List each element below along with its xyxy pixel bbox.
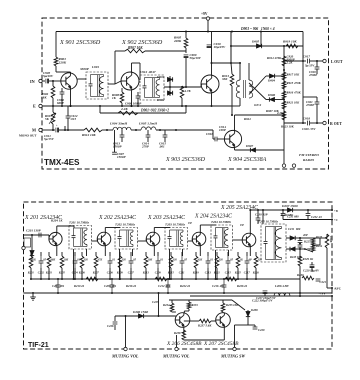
svg-text:C227 100µF/3V: C227 100µF/3V [256, 296, 277, 300]
wire [311, 262, 313, 265]
resistor R901 [54, 57, 58, 66]
wire T201 out [92, 240, 98, 242]
terminal FM stereo b [292, 164, 295, 167]
wire [260, 32, 262, 47]
wire R215 top [170, 252, 172, 256]
wire [303, 60, 306, 62]
svg-text:R917 10K: R917 10K [287, 73, 301, 77]
svg-text:+9V: +9V [201, 12, 208, 16]
wire R213 top [145, 252, 147, 256]
wire X204 emitter [199, 246, 201, 256]
wire [286, 237, 290, 239]
resistor R201 [29, 256, 33, 268]
wire T902 out to diodes/X903 [164, 86, 201, 88]
svg-text:X 204 2SA234C: X 204 2SA234C [194, 213, 232, 220]
resistor R215 [169, 256, 173, 268]
capacitor C222 [263, 290, 268, 292]
svg-text:R209: R209 [117, 272, 124, 275]
wire [316, 110, 318, 123]
wire [299, 238, 301, 241]
wire C202 bottom [40, 268, 42, 279]
wire [257, 220, 259, 224]
resistor R221 [215, 256, 219, 268]
wire to X201 base [48, 235, 50, 239]
wire from ground bus [158, 293, 160, 316]
wire [299, 266, 301, 296]
resistor R207 [94, 256, 98, 268]
svg-text:10K: 10K [64, 259, 69, 262]
svg-text:5µ/10V: 5µ/10V [43, 74, 54, 78]
wire [57, 225, 74, 227]
wire transformer return [73, 249, 75, 279]
wire [100, 112, 186, 114]
capacitor C230 [256, 217, 261, 219]
wire to FM stereo terminal [235, 149, 285, 151]
capacitor C201 [38, 233, 40, 238]
wire [132, 62, 141, 64]
wire R209 bottom [119, 268, 121, 279]
capacitor C220 [310, 264, 315, 266]
capacitor C919 [315, 66, 320, 68]
wire [154, 227, 170, 229]
resistor R216 [155, 277, 167, 281]
svg-text:X 901 2SC536D: X 901 2SC536D [59, 39, 101, 46]
wire [316, 61, 318, 67]
svg-text:R233: R233 [192, 303, 199, 307]
wire [232, 300, 245, 310]
wire [275, 99, 284, 101]
terminal MUTING SW [233, 347, 236, 350]
wire X904 emitter [234, 148, 236, 151]
capacitor C219 [298, 244, 303, 246]
svg-text:C213: C213 [205, 272, 212, 275]
wire X901 collector to T901 [77, 78, 86, 80]
wire [239, 98, 241, 106]
wire C204 bottom [74, 268, 76, 279]
wire [31, 235, 33, 250]
wire [213, 138, 215, 140]
junction [185, 86, 187, 88]
wire [172, 311, 176, 313]
svg-text:E: E [33, 104, 36, 109]
capacitor C213 [206, 260, 211, 262]
wire [171, 300, 173, 303]
wire [326, 234, 328, 238]
wire transformer return [215, 250, 217, 279]
wire [121, 103, 123, 106]
wire T203 out [188, 240, 193, 242]
svg-text:R238: R238 [174, 331, 181, 335]
wire C206 bottom [109, 268, 111, 279]
wire [310, 122, 323, 124]
svg-text:R201: R201 [28, 272, 35, 275]
wire [283, 46, 285, 53]
terminal [22, 246, 25, 249]
svg-text:C221: C221 [320, 280, 327, 284]
resistor R206 [80, 256, 84, 268]
wire transformer return [119, 249, 121, 279]
wire [282, 216, 284, 220]
svg-text:D902: D902 [156, 98, 165, 102]
junction on bus [207, 30, 209, 32]
wire X203 collector [153, 228, 155, 233]
cross wires to diode bridge [249, 83, 266, 100]
resistor R905 [184, 38, 188, 48]
svg-text:TIF-21: TIF-21 [28, 342, 49, 349]
svg-text:C225: C225 [152, 300, 159, 304]
resistor R913 [230, 74, 234, 86]
resistor R917 [282, 72, 286, 80]
terminal at border [331, 218, 333, 220]
svg-text:R216 22: R216 22 [126, 284, 137, 288]
resistor R210 [86, 277, 98, 281]
svg-text:220K: 220K [173, 39, 182, 43]
IF transformer T204 [211, 225, 233, 250]
wire right rail [302, 32, 304, 124]
wire [283, 53, 285, 123]
wire X204 collector [199, 225, 201, 232]
transistor X902 [121, 72, 139, 90]
resistor R230 [302, 276, 314, 280]
wire [257, 210, 259, 218]
svg-text:R921 10K: R921 10K [287, 100, 301, 104]
diode D208 [246, 311, 250, 316]
junction on E line [185, 105, 187, 107]
svg-text:X 206 2SC458B: X 206 2SC458B [166, 341, 202, 347]
svg-text:C215: C215 [225, 272, 232, 275]
wire [31, 256, 33, 260]
svg-text:5µ/15V: 5µ/15V [44, 137, 55, 141]
wire AGC line [283, 219, 332, 221]
resistor R906 [180, 86, 184, 98]
coil T903 primary [236, 80, 240, 98]
svg-text:T201 10.7MHz: T201 10.7MHz [69, 221, 90, 225]
IF transformer T901 [86, 72, 108, 99]
wire [248, 324, 255, 326]
IF transformer T202 [115, 228, 138, 250]
wire C213 bottom [207, 268, 209, 279]
wire output 9V line [190, 295, 332, 297]
wire X201 emitter [56, 246, 58, 257]
junction on E line [69, 105, 71, 107]
wire [147, 130, 149, 135]
ground symbol [32, 294, 34, 297]
capacitor C229 [253, 326, 258, 328]
wire [59, 129, 84, 131]
resistor R919 [286, 44, 298, 48]
svg-text:D907: D907 [245, 144, 254, 148]
wire [266, 75, 269, 77]
resistor R226 [254, 256, 258, 268]
wire C204 top [74, 252, 76, 256]
wire R225 top [237, 252, 239, 256]
svg-text:C229: C229 [258, 328, 265, 332]
wire [230, 32, 232, 47]
wire emitter line [184, 339, 225, 341]
svg-text:R907 10K: R907 10K [266, 109, 280, 113]
svg-text:X 902 2SC536D: X 902 2SC536D [121, 39, 163, 46]
svg-text:3300P: 3300P [79, 67, 90, 71]
resistor R922 [282, 111, 286, 120]
resistor R209 [118, 256, 122, 268]
bypass capacitor [110, 284, 115, 286]
svg-text:D903 ~ 906 1N60 × 4: D903 ~ 906 1N60 × 4 [240, 27, 275, 31]
wire transformer tap [132, 249, 134, 256]
svg-text:1K: 1K [33, 259, 36, 262]
wire C211 top [181, 252, 183, 256]
svg-text:R225 1K: R225 1K [290, 255, 301, 259]
svg-text:MUTING VOL: MUTING VOL [111, 354, 139, 359]
wire [169, 76, 171, 87]
wire [121, 137, 123, 142]
wire bus to R901 [55, 32, 57, 58]
wire [61, 88, 63, 92]
transistor X901 [61, 73, 77, 89]
bottom block TIF-21 dashed border [24, 202, 333, 349]
wire C905 to X901 base [49, 80, 61, 82]
svg-text:MONO OUT: MONO OUT [19, 134, 37, 138]
capacitor C910 [207, 44, 212, 46]
junction on bus [260, 30, 262, 32]
resistor R234 [170, 303, 174, 312]
wire C226 top [114, 316, 116, 321]
junction on E line [61, 105, 63, 107]
wire C213 top [207, 252, 209, 256]
wire C217 bottom [246, 268, 248, 279]
wire R207 bottom [95, 268, 97, 279]
wire C215 top [227, 252, 229, 256]
svg-text:R207: R207 [93, 272, 100, 275]
wire X202 emitter [104, 246, 106, 256]
wire [248, 63, 250, 80]
svg-text:R OUT: R OUT [330, 122, 342, 126]
wire R902 to E line [52, 98, 54, 106]
junction on E line [121, 105, 123, 107]
svg-text:D906: D906 [267, 93, 276, 97]
svg-text:47K: 47K [97, 259, 103, 262]
wire R221 bottom [216, 268, 218, 279]
resistor R231 [325, 234, 329, 248]
diode D202 [290, 247, 295, 251]
svg-text:R916 470K: R916 470K [287, 91, 302, 95]
wire down to border terminal [283, 123, 285, 164]
svg-text:L901: L901 [91, 65, 99, 69]
wire [231, 86, 233, 115]
svg-text:100K: 100K [329, 236, 333, 243]
IF transformer T203 [165, 228, 188, 250]
wire [303, 96, 317, 98]
wire T901 output [108, 83, 115, 85]
svg-text:R222 22: R222 22 [180, 284, 191, 288]
svg-text:C207: C207 [128, 272, 135, 275]
wire transformer tap [182, 249, 184, 256]
wire [313, 237, 320, 239]
svg-text:C232 .01: C232 .01 [311, 215, 322, 219]
wire [217, 138, 225, 140]
junction L [283, 69, 285, 71]
wire [52, 106, 54, 112]
svg-text:+B: +B [334, 209, 338, 213]
junction on E line [210, 105, 212, 107]
wire X201 collector [56, 226, 58, 233]
resistor R238 [182, 330, 186, 340]
wire [191, 239, 193, 241]
junction [169, 86, 171, 88]
diode D207 [287, 208, 292, 212]
wire transformer return [169, 249, 171, 279]
capacitor C908 [136, 95, 141, 97]
svg-text:T202 10.7MHz: T202 10.7MHz [115, 223, 136, 227]
wire C202 top [40, 252, 42, 256]
svg-text:C917: C917 [303, 55, 310, 59]
wire into T902 [139, 63, 141, 80]
resistor R233 [187, 302, 191, 309]
svg-text:C204: C204 [72, 272, 79, 275]
wire X903 emitter [211, 93, 213, 106]
svg-text:C211: C211 [179, 272, 185, 275]
svg-text:X 202 2SA234C: X 202 2SA234C [98, 214, 136, 221]
wire C209 top [157, 252, 159, 256]
wire [311, 267, 313, 272]
svg-text:L904 33mH: L904 33mH [109, 122, 127, 126]
capacitor C912 [66, 115, 71, 117]
wire [99, 106, 101, 113]
resistor R227 [311, 238, 315, 245]
wire R219 bottom [195, 268, 197, 279]
svg-text:T.P: T.P [240, 223, 244, 227]
resistor R908 [120, 92, 124, 103]
wire R901 to collector node [55, 66, 57, 72]
wire C209 bottom [157, 268, 159, 279]
transistor X201 [49, 232, 62, 245]
wire X901 emitter to E line [70, 89, 72, 106]
AFC terminal [331, 287, 333, 289]
junction on bus [231, 30, 233, 32]
wire [312, 251, 314, 253]
wire [212, 130, 214, 139]
wire R201 bottom [30, 268, 32, 279]
svg-text:X 903 2SC536D: X 903 2SC536D [165, 157, 206, 163]
wire [52, 81, 54, 86]
resistor R213 [144, 256, 148, 268]
terminal L OUT [323, 59, 326, 62]
wire [316, 104, 318, 110]
wire [64, 126, 66, 130]
capacitor C909 [184, 54, 189, 56]
svg-text:R924: R924 [244, 117, 251, 121]
junction on E line [52, 105, 54, 107]
svg-text:C201 130P: C201 130P [26, 229, 41, 233]
wire R205 bottom [61, 268, 63, 279]
junction at border [331, 209, 333, 211]
wire [327, 287, 332, 289]
svg-text:X 203 2SA234C: X 203 2SA234C [147, 214, 185, 221]
wire R201 top [30, 252, 32, 256]
wire C215 bottom [227, 268, 229, 279]
top block TMX-4ES dashed border [42, 18, 329, 169]
svg-text:33K: 33K [221, 77, 228, 81]
wire R215 bottom [170, 268, 172, 279]
svg-text:C226: C226 [107, 324, 114, 328]
capacitor C917 output [307, 59, 309, 64]
wire [231, 63, 232, 74]
capacitor C211 [180, 260, 185, 262]
wire [131, 129, 141, 131]
capacitor C207 [129, 260, 134, 262]
wire [235, 114, 285, 116]
wire [295, 248, 305, 250]
svg-text:1500P: 1500P [117, 155, 125, 159]
wire [200, 224, 216, 226]
resistor R225 [236, 256, 240, 268]
resistor R219 [194, 256, 198, 268]
wire R203 top [48, 252, 50, 256]
coil L905 [141, 127, 156, 130]
coil L904 [113, 127, 131, 130]
svg-text:TMX-4ES: TMX-4ES [44, 158, 80, 167]
diode D906 [269, 97, 274, 101]
svg-text:.001: .001 [159, 145, 165, 149]
wire [105, 227, 120, 229]
wire muting supply [169, 299, 232, 301]
wire [299, 249, 301, 260]
wire [137, 98, 139, 106]
junction ground [264, 292, 266, 294]
capacitor C217 [245, 260, 250, 262]
wire [181, 98, 183, 106]
resistor R203 [47, 256, 51, 268]
wire [286, 248, 290, 250]
resistor R921 [282, 101, 286, 109]
wire [310, 60, 323, 62]
wire [313, 244, 320, 246]
wire +9V bus [56, 31, 303, 33]
svg-text:.015: .015 [71, 117, 77, 121]
resistor R910 [118, 111, 138, 115]
svg-text:AFC: AFC [334, 287, 342, 291]
capacitor C906 [60, 91, 65, 93]
svg-text:330: 330 [121, 259, 127, 262]
svg-text:D904: D904 [267, 79, 276, 83]
wire 38kHz drive [212, 62, 241, 64]
wire [164, 130, 166, 135]
capacitor C916 [214, 137, 216, 142]
coil T903 secondary [249, 80, 253, 98]
wire IN [42, 80, 45, 82]
svg-text:C209: C209 [155, 272, 162, 275]
wire [97, 239, 99, 241]
resistor R205 [60, 256, 64, 268]
capacitor C218 [298, 240, 303, 242]
wire [307, 216, 309, 220]
junction ground [167, 292, 169, 294]
wire [305, 249, 313, 252]
coil L206 [274, 293, 290, 296]
wire [121, 130, 123, 135]
svg-text:4700P: 4700P [305, 103, 314, 107]
svg-text:IN: IN [30, 79, 35, 84]
wire [299, 243, 301, 244]
transistor X904 [224, 130, 241, 147]
svg-text:R206: R206 [79, 272, 86, 275]
wire X203 emitter [153, 246, 155, 256]
svg-text:68K: 68K [51, 259, 56, 262]
wire [266, 99, 269, 101]
wire X904 collector [234, 115, 236, 131]
capacitor C905 [45, 79, 47, 84]
wire [184, 320, 199, 322]
detector transformer T205 [261, 224, 286, 262]
